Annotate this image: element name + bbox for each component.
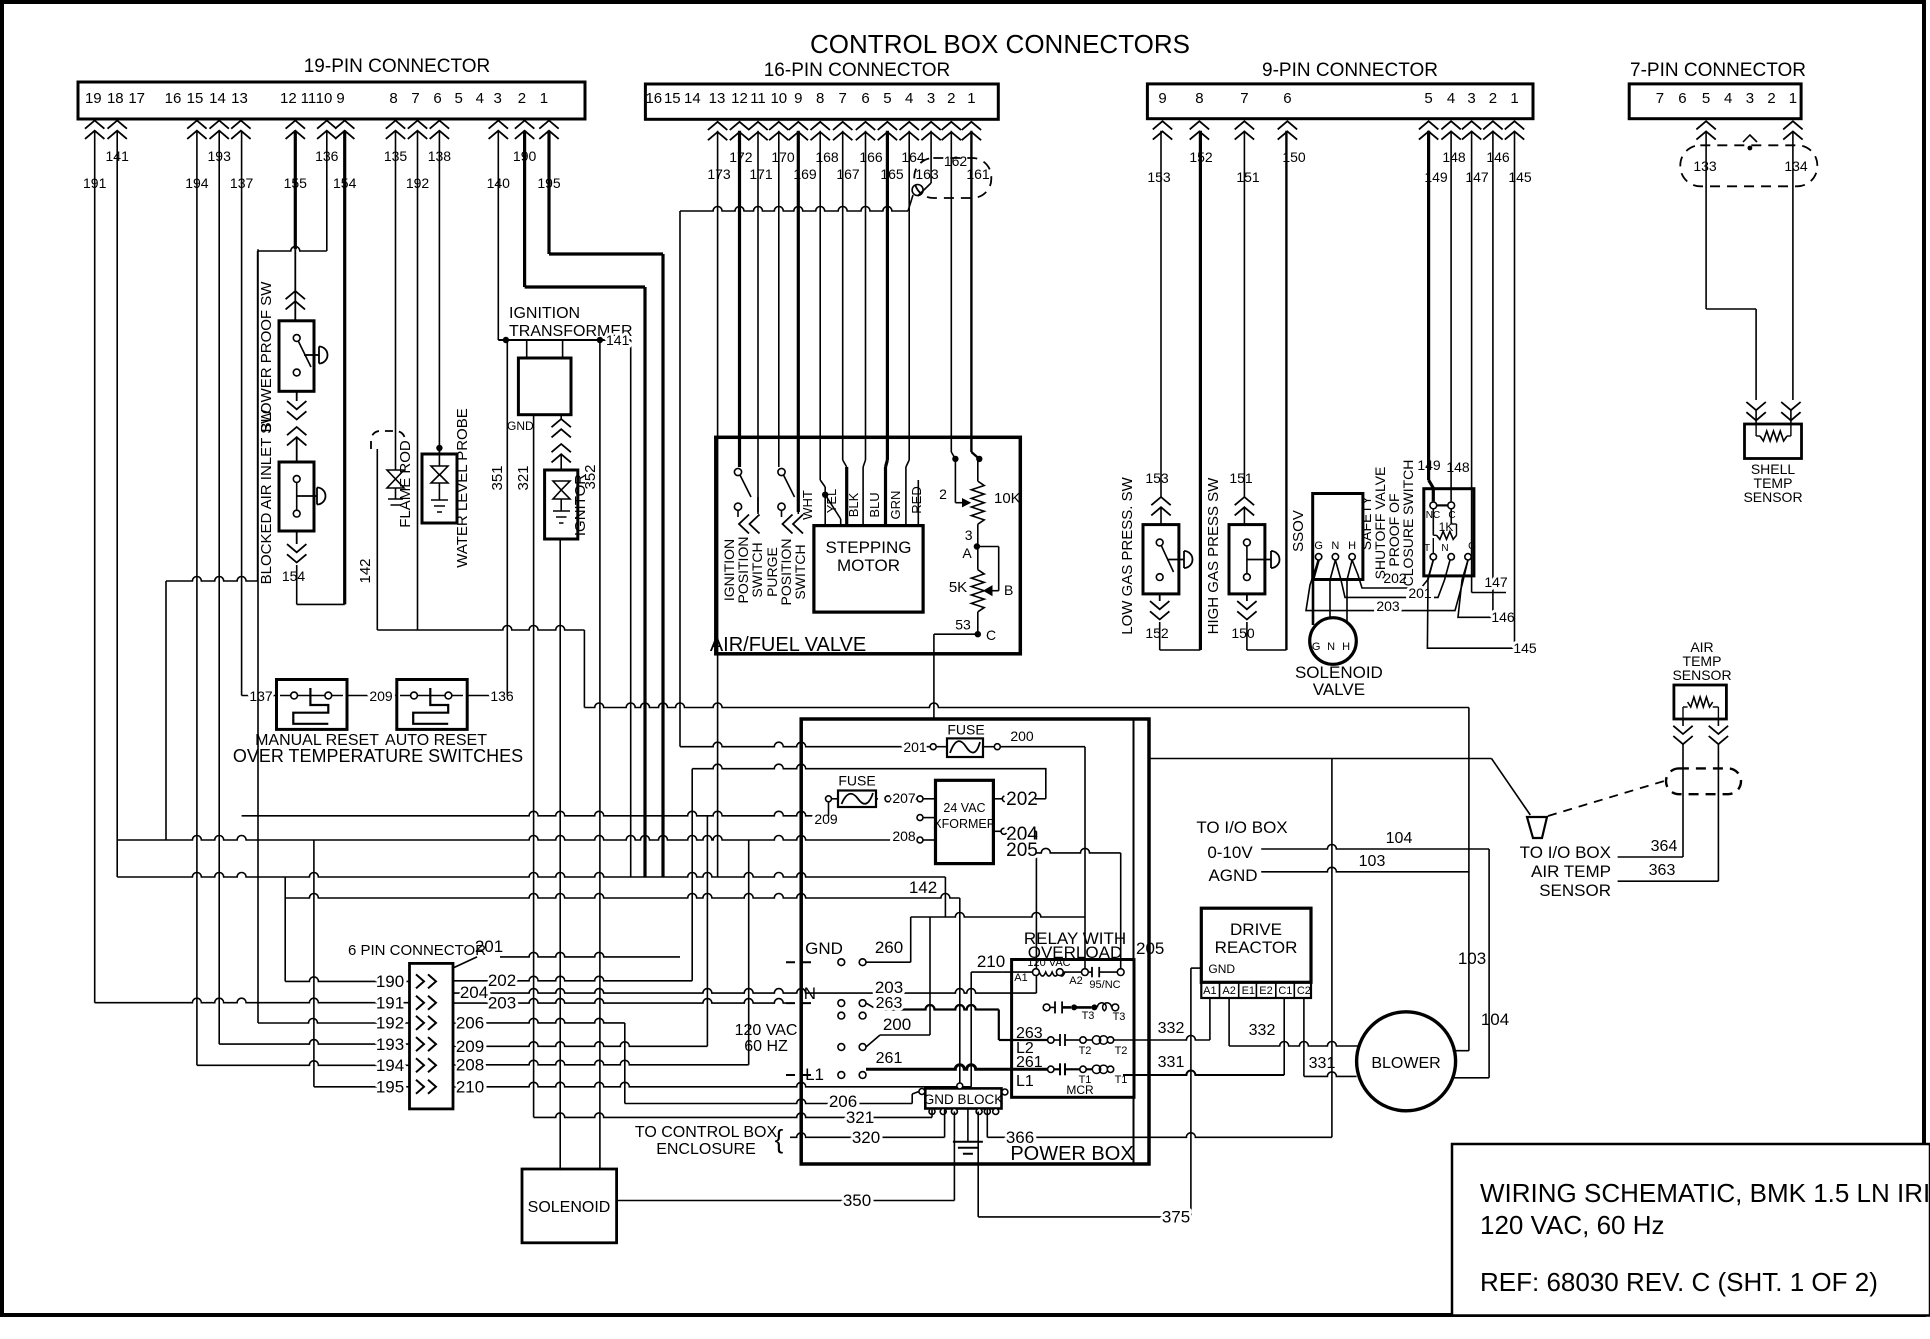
svg-text:148: 148	[1442, 149, 1466, 165]
sensor RT1 SHELL TEMP SENSOR box with resistor	[1745, 424, 1802, 459]
arrow into blocked air inlet switch	[287, 427, 306, 445]
svg-text:GND: GND	[507, 419, 534, 433]
wire 2 to 10K pot wiper	[954, 459, 956, 503]
svg-text:13: 13	[709, 90, 726, 107]
wire 205 from transformer to relay NC	[1036, 848, 1120, 853]
svg-text:204: 204	[460, 983, 488, 1002]
svg-text:STEPPING: STEPPING	[826, 538, 912, 557]
svg-text:104: 104	[1481, 1010, 1509, 1029]
svg-text:165: 165	[880, 166, 904, 182]
wire 193 from pin 14 to 6-pin row 209	[218, 131, 220, 1044]
svg-text:RED: RED	[909, 486, 924, 513]
arrow out of high gas switch, wire 150	[1246, 594, 1248, 601]
svg-text:153: 153	[1145, 470, 1169, 486]
svg-text:5K: 5K	[949, 579, 967, 596]
svg-text:194: 194	[376, 1056, 404, 1075]
svg-text:173: 173	[707, 166, 731, 182]
svg-text:210: 210	[456, 1077, 484, 1096]
switch S6 PURGE POSITION SWITCH	[778, 468, 785, 475]
svg-text:SWITCH: SWITCH	[792, 544, 808, 599]
6-pin row 195 from x313.9	[314, 1086, 410, 1088]
title block box	[1452, 1144, 1930, 1316]
svg-text:BLU: BLU	[867, 492, 882, 517]
svg-text:FUSE: FUSE	[838, 773, 875, 789]
transformer T1 IGNITION TRANSFORMER box	[518, 358, 571, 415]
svg-text:MOTOR: MOTOR	[837, 556, 900, 575]
svg-text:263: 263	[876, 995, 903, 1012]
svg-text:LOW GAS PRESS. SW: LOW GAS PRESS. SW	[1119, 476, 1136, 634]
wire arrow into 19-pin connector	[187, 121, 206, 139]
svg-text:137: 137	[249, 688, 273, 704]
svg-text:H: H	[1342, 641, 1350, 653]
svg-text:167: 167	[836, 166, 860, 182]
wire 142 into power box to gnd block	[285, 894, 960, 899]
svg-text:BLK: BLK	[846, 492, 861, 517]
wire from bus down to I/O feed	[377, 626, 584, 631]
svg-text:350: 350	[843, 1191, 871, 1210]
wire 103 vertical to blower	[1468, 708, 1470, 1051]
wire arrow into 9-pin connector	[1505, 121, 1524, 139]
wire 140 from pin 3 to ignition transformer rail	[497, 131, 499, 340]
wire 135 from pin 8 to flame rod	[395, 131, 397, 466]
wire arrow into 19-pin connector	[489, 121, 508, 139]
drive reactor terminal strip A1 A2 E1 E2 C1 C2	[1201, 982, 1311, 998]
wire arrow into 16-pin connector	[878, 122, 897, 140]
wire 352 from transformer rail down to solenoid	[599, 340, 601, 1170]
svg-text:205: 205	[1006, 840, 1038, 861]
stub arrow pin 3 of 7-pin connector	[1743, 135, 1757, 142]
relay K1 box	[1012, 960, 1134, 1098]
wire arrow into 19-pin connector	[539, 121, 558, 139]
svg-text:5: 5	[883, 90, 891, 107]
svg-text:14: 14	[209, 90, 226, 107]
wire arrow into 16-pin connector	[921, 122, 940, 140]
svg-text:207: 207	[892, 790, 916, 806]
wire 350 from solenoid to gnd block	[617, 1200, 955, 1202]
wire 103 from AGND joining 103 vertical	[1261, 867, 1469, 871]
svg-text:A: A	[962, 545, 972, 561]
wire 146 from G terminal to pin 2	[1458, 560, 1493, 617]
wire 134 from pin 1 of 7-pin connector	[1792, 131, 1794, 400]
svg-text:166: 166	[859, 149, 883, 165]
svg-text:191: 191	[376, 994, 404, 1013]
wire arrow into 9-pin connector	[1483, 121, 1502, 139]
svg-text:T: T	[1424, 543, 1430, 554]
svg-text:136: 136	[490, 688, 514, 704]
wire 152 up to 9-pin pin 8	[1199, 131, 1202, 650]
wire from ignitor bottom to solenoid	[559, 539, 561, 1170]
dashed oval around wires 133 134	[1680, 145, 1817, 186]
svg-text:148: 148	[1446, 459, 1470, 475]
svg-text:VALVE: VALVE	[1313, 680, 1365, 699]
svg-text:161: 161	[966, 166, 990, 182]
svg-text:133: 133	[1693, 158, 1717, 174]
wire 162 from pin 2 to 10K potentiometer wiper	[950, 131, 952, 452]
svg-text:151: 151	[1229, 470, 1253, 486]
svg-text:3: 3	[965, 527, 973, 543]
svg-text:200: 200	[1010, 728, 1034, 744]
svg-text:6 PIN CONNECTOR: 6 PIN CONNECTOR	[348, 942, 486, 959]
svg-text:171: 171	[749, 166, 773, 182]
svg-text:53: 53	[955, 617, 971, 633]
svg-text:149: 149	[1417, 457, 1441, 473]
wire arrow into 19-pin connector	[386, 121, 405, 139]
svg-text:332: 332	[1249, 1022, 1276, 1039]
wire 167 from pin 7 down	[842, 131, 844, 460]
wire 150 up to 9-pin pin 6	[1285, 131, 1287, 650]
wire run to air temp region	[584, 703, 1469, 708]
svg-text:7: 7	[839, 90, 847, 107]
resistor 5K potentiometer	[977, 547, 979, 570]
wire 163 from pin 3 with twisted pair jog to power box feed	[930, 131, 932, 183]
svg-text:261: 261	[876, 1050, 903, 1067]
wire arrow into 19-pin connector	[335, 121, 354, 139]
wire 203 row of 6-pin connector to N switch	[453, 999, 786, 1004]
svg-text:WATER LEVEL PROBE: WATER LEVEL PROBE	[454, 408, 471, 568]
svg-text:SSOV: SSOV	[1290, 510, 1307, 552]
svg-text:7: 7	[1656, 90, 1664, 107]
svg-text:366: 366	[1006, 1128, 1034, 1147]
svg-text:151: 151	[1236, 169, 1260, 185]
svg-text:7: 7	[411, 90, 419, 107]
wire arrow into 16-pin connector	[748, 122, 767, 140]
svg-text:19-PIN CONNECTOR: 19-PIN CONNECTOR	[304, 56, 491, 77]
left bus vertical x313.9 to 6-pin rows	[313, 840, 315, 1087]
svg-text:HIGH GAS PRESS SW: HIGH GAS PRESS SW	[1205, 477, 1222, 635]
svg-text:2: 2	[947, 90, 955, 107]
wire from power box to thermowell funnel	[1149, 758, 1492, 760]
arrow out of low gas switch, wire 152	[1159, 594, 1161, 601]
svg-text:E2: E2	[1259, 985, 1272, 997]
wire 138 from pin 6 to water level probe	[438, 131, 440, 454]
unused transformer stub	[923, 817, 936, 819]
svg-text:OVER TEMPERATURE SWITCHES: OVER TEMPERATURE SWITCHES	[233, 746, 523, 766]
svg-text:203: 203	[1376, 598, 1400, 614]
ignitor E1 box with diodes and ground	[545, 470, 578, 539]
wire arrow into 9-pin connector	[1235, 121, 1254, 139]
switch row with wire 200	[838, 1044, 845, 1051]
svg-text:24 VAC: 24 VAC	[943, 801, 985, 815]
wire 201 feed with FUSE F1 and wire 200	[680, 742, 933, 747]
svg-text:208: 208	[456, 1055, 484, 1074]
wire arrow into 19-pin connector	[85, 121, 104, 139]
wire 151 from pin 7 to high gas pressure switch	[1243, 131, 1245, 497]
svg-text:C1: C1	[1278, 985, 1292, 997]
svg-text:GND BLOCK: GND BLOCK	[924, 1092, 1004, 1107]
switch S8 HIGH GAS PRESS SW	[1229, 525, 1265, 594]
wire 202 from SSOV H to proof of closure T	[1352, 560, 1433, 588]
svg-text:T2: T2	[1115, 1045, 1128, 1057]
svg-text:4: 4	[1724, 90, 1732, 107]
svg-text:GRN: GRN	[888, 491, 903, 520]
wire 190 from pin 2, routed right and down to power box L1	[523, 131, 526, 287]
svg-text:4: 4	[476, 90, 484, 107]
svg-text:GND: GND	[805, 939, 843, 958]
svg-text:FUSE: FUSE	[947, 722, 984, 738]
switch S5 IGNITION POSITION SWITCH	[734, 468, 741, 475]
svg-text:REF: 68030 REV. C (SHT. 1 OF 2: REF: 68030 REV. C (SHT. 1 OF 2)	[1480, 1267, 1878, 1297]
svg-text:SOLENOID: SOLENOID	[528, 1199, 611, 1216]
wire 209 row of 6-pin connector	[453, 1042, 707, 1047]
svg-text:IGNITION: IGNITION	[509, 305, 580, 322]
wire arrow into 9-pin connector	[1153, 121, 1172, 139]
svg-text:1: 1	[540, 90, 548, 107]
twisted pair marker circle on wire 163	[912, 185, 923, 196]
svg-text:7-PIN CONNECTOR: 7-PIN CONNECTOR	[1630, 60, 1806, 81]
wire 133 from pin 5 of 7-pin connector	[1705, 131, 1707, 309]
svg-text:12: 12	[731, 90, 748, 107]
wire 206 row from 6-pin to gnd block	[453, 1018, 625, 1023]
svg-text:AIR TEMP: AIR TEMP	[1531, 862, 1611, 881]
svg-text:209: 209	[814, 811, 838, 827]
wire arrow into 16-pin connector	[789, 122, 808, 140]
svg-text:201: 201	[903, 739, 927, 755]
wire 165 from pin 5 to stepping motor BLU	[886, 131, 889, 460]
node A junction dot	[974, 543, 980, 549]
svg-text:320: 320	[852, 1128, 880, 1147]
wire 201 row callout from 6-pin connector	[453, 957, 477, 968]
svg-text:2: 2	[1767, 90, 1775, 107]
svg-text:150: 150	[1231, 625, 1255, 641]
svg-text:1: 1	[1510, 90, 1518, 107]
svg-text:205: 205	[1136, 939, 1164, 958]
switch S4 AUTO RESET over temperature switch	[397, 680, 467, 730]
relay contact row T3	[1043, 1004, 1050, 1011]
wire 148 from pin 4 to C terminal	[1450, 131, 1452, 502]
svg-text:141: 141	[606, 332, 630, 348]
svg-text:AGND: AGND	[1208, 866, 1257, 885]
svg-text:18: 18	[107, 90, 124, 107]
svg-text:147: 147	[1484, 574, 1508, 590]
svg-text:104: 104	[1386, 830, 1413, 847]
solenoid L1 SOLENOID box	[522, 1169, 617, 1243]
motor lead RED	[917, 480, 919, 526]
svg-text:2: 2	[1489, 90, 1497, 107]
svg-text:6: 6	[1678, 90, 1686, 107]
svg-text:L1: L1	[1016, 1073, 1034, 1090]
svg-text:1: 1	[1789, 90, 1797, 107]
fuse F2 box	[838, 791, 876, 808]
svg-text:17: 17	[128, 90, 145, 107]
wire arrow into 7-pin connector	[1783, 121, 1802, 139]
svg-text:3: 3	[1746, 90, 1754, 107]
stepping motor M1 box	[814, 526, 923, 613]
svg-text:5: 5	[1424, 90, 1432, 107]
dashed lead from funnel to twisted pair	[1548, 781, 1665, 816]
arrow out of blower proof switch	[296, 391, 298, 401]
wires from SSOV terminals down to solenoid valve	[1313, 560, 1319, 625]
svg-text:163: 163	[915, 166, 939, 182]
wire 171 from pin 11 to ignition position switch	[757, 131, 759, 512]
svg-text:14: 14	[684, 90, 701, 107]
svg-text:SENSOR: SENSOR	[1672, 667, 1731, 683]
svg-text:WHT: WHT	[800, 490, 815, 520]
wire 209 feed line into FUSE F2	[242, 811, 828, 815]
svg-text:192: 192	[376, 1014, 404, 1033]
svg-text:147: 147	[1465, 169, 1489, 185]
spare switch row	[838, 1012, 845, 1019]
wire 260 junction line from GND switch to wire 200	[911, 913, 1085, 917]
wire 200 down to relay NC contact	[1084, 747, 1086, 969]
wire arrow into 16-pin connector	[769, 122, 788, 140]
wire 161 from pin 1 to 10K potentiometer top	[970, 131, 972, 452]
wire 155 from pin 12 into blower proof switch chain	[294, 131, 297, 250]
svg-text:142: 142	[357, 558, 374, 583]
6-pin connector pin symbol row 2	[416, 996, 436, 1010]
svg-text:153: 153	[1147, 169, 1171, 185]
svg-text:6: 6	[433, 90, 441, 107]
svg-text:261: 261	[1016, 1054, 1043, 1071]
svg-text:TO I/O BOX: TO I/O BOX	[1196, 818, 1287, 837]
wire 363	[1618, 880, 1719, 882]
wire arrow into 9-pin connector	[1278, 121, 1297, 139]
wire arrow into 16-pin connector	[730, 122, 749, 140]
svg-text:203: 203	[488, 994, 516, 1013]
svg-text:331: 331	[1158, 1054, 1185, 1071]
svg-text:DRIVE: DRIVE	[1230, 920, 1282, 939]
6-pin connector pin symbol row 6	[416, 1080, 436, 1094]
svg-text:16: 16	[165, 90, 182, 107]
svg-text:11: 11	[750, 90, 766, 107]
svg-text:145: 145	[1513, 640, 1537, 656]
wire arrow into 19-pin connector	[231, 121, 250, 139]
svg-text:9-PIN CONNECTOR: 9-PIN CONNECTOR	[1262, 60, 1438, 81]
wire arrow into 19-pin connector	[286, 121, 305, 139]
svg-text:9: 9	[1158, 90, 1166, 107]
svg-text:95/NC: 95/NC	[1089, 979, 1120, 991]
svg-text:REACTOR: REACTOR	[1215, 938, 1298, 957]
wire 136 from auto reset up to GND wire	[467, 695, 507, 697]
wire arrow into 19-pin connector	[210, 121, 229, 139]
svg-text:3: 3	[494, 90, 502, 107]
svg-text:TO CONTROL BOX: TO CONTROL BOX	[635, 1124, 778, 1141]
switch S2 BLOCKED AIR INLET SW	[279, 462, 314, 531]
svg-text:352: 352	[582, 464, 599, 489]
svg-text:145: 145	[1508, 169, 1532, 185]
svg-text:T3: T3	[1113, 1011, 1126, 1023]
wire 202 feed line	[692, 764, 1046, 769]
wire 147 from pin 3	[1471, 131, 1473, 593]
svg-text:364: 364	[1651, 838, 1678, 855]
svg-text:8: 8	[389, 90, 397, 107]
wire C2 to blower	[1303, 998, 1305, 1076]
svg-text:190: 190	[376, 972, 404, 991]
svg-text:168: 168	[815, 149, 839, 165]
6-pin connector pin symbol row 5	[416, 1058, 436, 1072]
svg-text:60 HZ: 60 HZ	[744, 1038, 788, 1055]
arrow into blower proof switch	[286, 291, 305, 309]
svg-text:10: 10	[770, 90, 787, 107]
wire 201 from SSOV N to proof of closure N	[1335, 560, 1450, 597]
T N G contacts	[1430, 554, 1436, 560]
svg-text:3: 3	[927, 90, 935, 107]
ground symbol below gnd block	[967, 1109, 969, 1142]
solenoid valve SV1 circle	[1310, 618, 1357, 665]
svg-text:ENCLOSURE: ENCLOSURE	[656, 1141, 756, 1158]
svg-text:19: 19	[85, 90, 102, 107]
svg-text:12: 12	[280, 90, 297, 107]
wire arrow into 19-pin connector	[430, 121, 449, 139]
svg-text:4: 4	[905, 90, 913, 107]
svg-text:XFORMER: XFORMER	[933, 817, 996, 831]
svg-text:206: 206	[456, 1014, 484, 1033]
svg-text:10K: 10K	[994, 490, 1021, 507]
svg-text:{: {	[775, 1124, 784, 1154]
wire 173 from pin 13 down to bus	[717, 131, 719, 877]
wire 375 from gnd block to drive reactor gnd	[978, 1216, 1191, 1218]
wire arrow into 9-pin connector	[1419, 121, 1438, 139]
water level probe WLP1 box with diodes and ground	[422, 454, 457, 523]
svg-text:120 VAC: 120 VAC	[735, 1022, 798, 1039]
wire 137 from pin 13 to manual reset over-temperature switch	[241, 131, 243, 696]
wire A2 to blower	[1228, 998, 1230, 1046]
svg-text:210: 210	[977, 952, 1005, 971]
svg-text:120 VAC, 60 Hz: 120 VAC, 60 Hz	[1480, 1210, 1665, 1240]
svg-text:209: 209	[369, 688, 393, 704]
svg-text:GND: GND	[1208, 962, 1235, 976]
svg-text:0-10V: 0-10V	[1207, 843, 1253, 862]
svg-text:SWITCH: SWITCH	[749, 542, 765, 597]
motor M2 BLOWER circle	[1357, 1012, 1456, 1111]
wire arrow into 16-pin connector	[962, 122, 981, 140]
wire 191 from pin 19 to 6-pin connector row	[94, 131, 96, 1003]
svg-text:H: H	[1348, 540, 1356, 552]
switch S9 proof of closure box	[1424, 489, 1474, 576]
valve SSOV box	[1313, 494, 1363, 580]
svg-text:321: 321	[515, 465, 532, 490]
wire 141 from pin 18 to power box bus	[116, 131, 118, 877]
svg-text:260: 260	[875, 938, 903, 957]
fuse F1 box	[947, 738, 983, 757]
wire 332 from relay to drive reactor A1	[1114, 1036, 1210, 1041]
arrows into shell temp sensor	[1746, 402, 1765, 420]
svg-text:134: 134	[1784, 158, 1808, 174]
wire arrow into 9-pin connector	[1190, 121, 1209, 139]
wire 204 bracket riser	[1035, 831, 1037, 993]
svg-text:11: 11	[301, 90, 317, 107]
wire 172 from pin 12 to ignition position switch	[738, 131, 741, 467]
svg-text:170: 170	[771, 149, 795, 165]
assembly box AIR/FUEL VALVE	[716, 437, 1021, 654]
wire 104 from 0-10V to blower	[1261, 845, 1489, 850]
svg-text:A2: A2	[1069, 975, 1082, 987]
svg-text:103: 103	[1359, 853, 1386, 870]
flame rod dashed tip	[371, 431, 405, 449]
svg-text:5: 5	[455, 90, 463, 107]
svg-text:TO I/O BOX: TO I/O BOX	[1520, 843, 1611, 862]
svg-text:A1: A1	[1014, 972, 1027, 984]
wire 209 between over temperature switches	[347, 695, 397, 697]
wire 203 from SSOV G to proof of closure G	[1306, 560, 1468, 611]
wire 208 feed line from left bus into transformer	[117, 836, 916, 841]
wire arrow into 7-pin connector	[1696, 121, 1715, 139]
wire arrow into 16-pin connector	[833, 122, 852, 140]
thermowell funnel symbol	[1527, 817, 1547, 838]
wire arrow into 19-pin connector	[408, 121, 427, 139]
svg-text:CLOSURE SWITCH: CLOSURE SWITCH	[1400, 460, 1416, 587]
wire 331 from relay to drive reactor C1	[1123, 1071, 1284, 1076]
svg-text:T2: T2	[1079, 1045, 1092, 1057]
transformer 204 205 outputs	[1001, 828, 1007, 834]
svg-text:E1: E1	[1242, 985, 1255, 997]
wire 321 from transformer bottom	[533, 415, 535, 1118]
wire arrow into 16-pin connector	[811, 122, 830, 140]
svg-text:C2: C2	[1297, 985, 1311, 997]
svg-text:4: 4	[1447, 90, 1455, 107]
wire arrow into 16-pin connector	[942, 122, 961, 140]
junction dots for pot wires	[952, 456, 958, 462]
wire from node C down into power box area	[934, 633, 978, 635]
